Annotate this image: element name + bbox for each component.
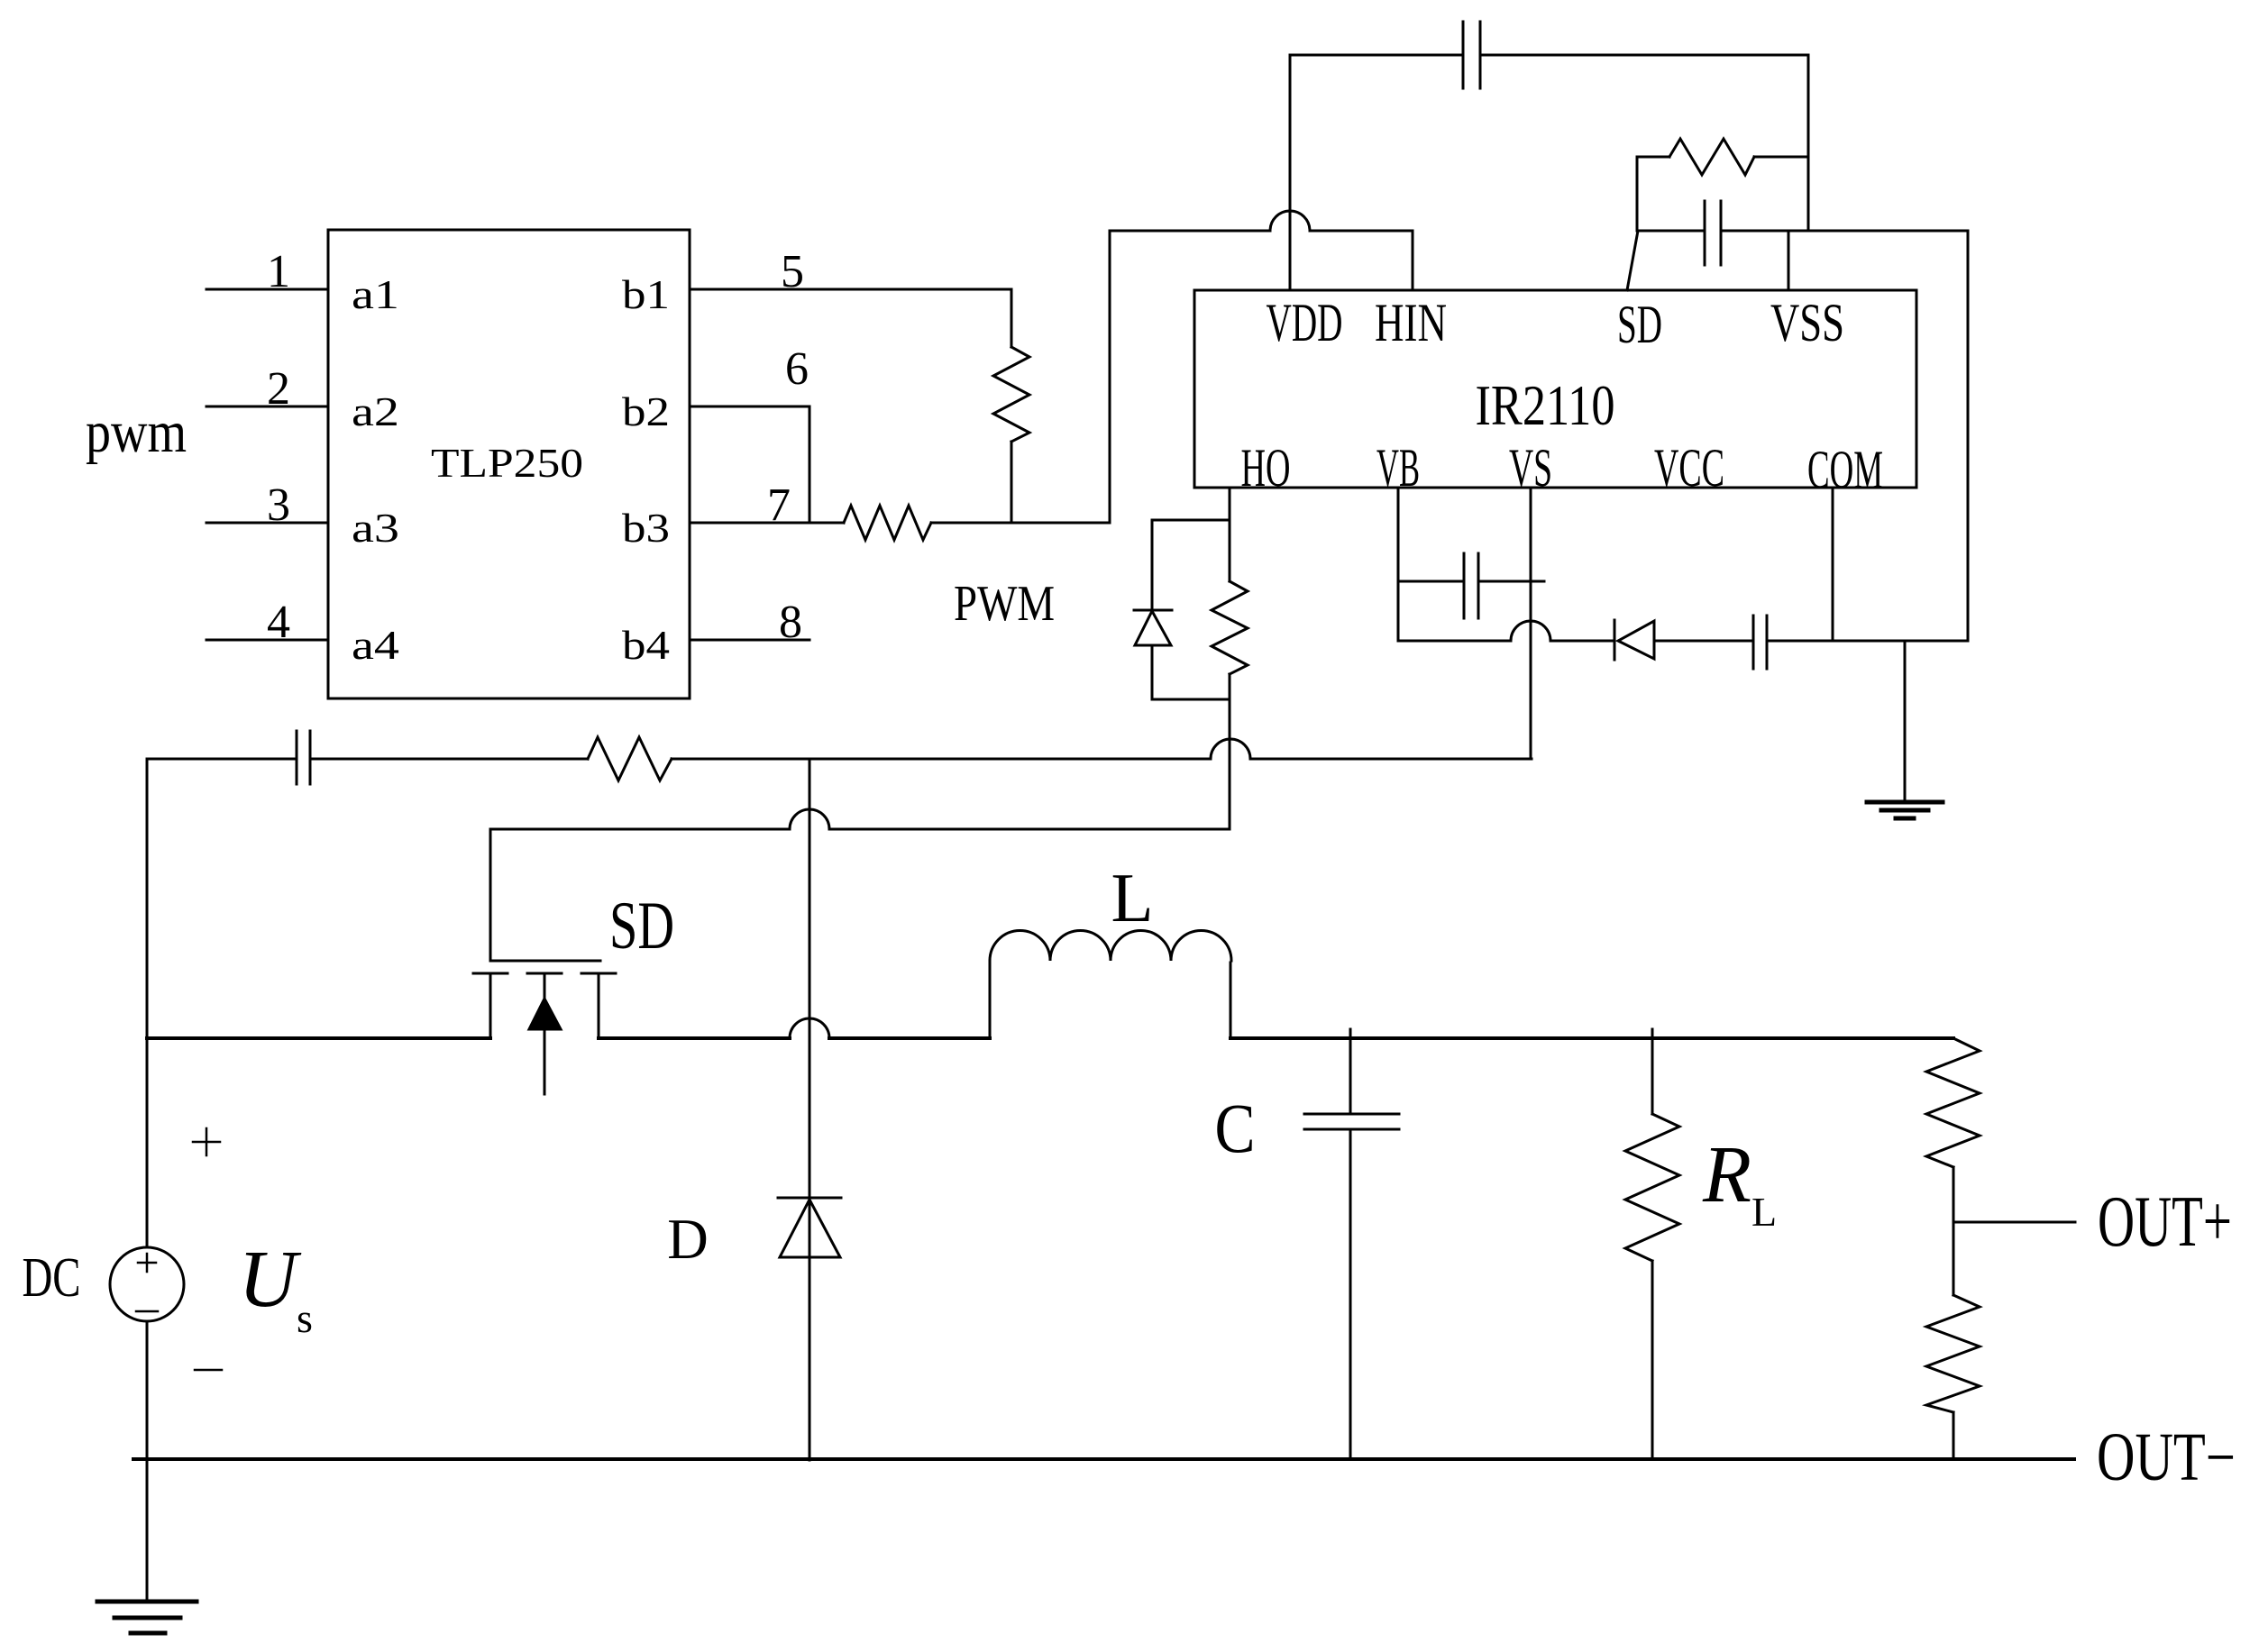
svg-text:a1: a1 bbox=[352, 271, 399, 317]
svg-text:pwm: pwm bbox=[86, 399, 187, 465]
svg-text:VS: VS bbox=[1509, 438, 1552, 497]
svg-text:1: 1 bbox=[267, 246, 290, 297]
svg-text:L: L bbox=[1751, 1189, 1777, 1235]
svg-text:D: D bbox=[667, 1208, 709, 1271]
svg-text:VB: VB bbox=[1376, 438, 1420, 497]
svg-text:C: C bbox=[1215, 1089, 1256, 1167]
svg-text:VCC: VCC bbox=[1654, 438, 1724, 497]
svg-text:VSS: VSS bbox=[1770, 293, 1844, 352]
svg-text:b3: b3 bbox=[622, 505, 670, 551]
svg-text:SD: SD bbox=[1617, 295, 1662, 354]
svg-text:L: L bbox=[1111, 859, 1153, 936]
svg-text:U: U bbox=[239, 1235, 302, 1324]
svg-text:a3: a3 bbox=[352, 505, 399, 551]
svg-text:a2: a2 bbox=[352, 388, 399, 434]
svg-text:3: 3 bbox=[267, 479, 290, 531]
svg-text:6: 6 bbox=[785, 343, 809, 395]
svg-text:R: R bbox=[1702, 1130, 1751, 1219]
svg-text:DC: DC bbox=[23, 1247, 81, 1309]
svg-text:HO: HO bbox=[1241, 438, 1291, 497]
svg-text:VDD: VDD bbox=[1267, 293, 1343, 352]
svg-text:2: 2 bbox=[267, 363, 290, 415]
svg-text:OUT+: OUT+ bbox=[2098, 1182, 2232, 1262]
svg-text:a4: a4 bbox=[352, 622, 399, 668]
svg-text:HIN: HIN bbox=[1375, 293, 1447, 352]
svg-text:b2: b2 bbox=[622, 388, 670, 434]
svg-text:IR2110: IR2110 bbox=[1476, 373, 1615, 437]
svg-text:OUT−: OUT− bbox=[2097, 1419, 2236, 1495]
svg-text:7: 7 bbox=[767, 479, 791, 531]
svg-text:4: 4 bbox=[267, 597, 290, 648]
svg-text:8: 8 bbox=[779, 597, 802, 648]
svg-text:5: 5 bbox=[781, 246, 804, 297]
svg-text:b4: b4 bbox=[622, 622, 670, 668]
svg-text:b1: b1 bbox=[622, 271, 670, 317]
svg-text:SD: SD bbox=[609, 889, 674, 963]
svg-text:TLP250: TLP250 bbox=[431, 440, 583, 486]
svg-text:COM: COM bbox=[1807, 440, 1883, 499]
svg-text:s: s bbox=[297, 1295, 313, 1341]
svg-text:PWM: PWM bbox=[954, 576, 1055, 632]
